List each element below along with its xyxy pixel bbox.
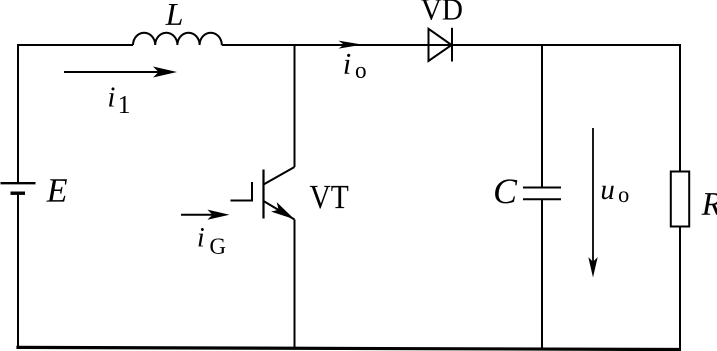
label E (46, 179, 67, 201)
wire capacitor lower (541, 199, 543, 349)
label i1-i (109, 87, 115, 106)
label VD (421, 0, 441, 20)
label iG-G (210, 239, 225, 254)
transistor VT body bar (262, 170, 264, 219)
wire bottom (16, 347, 681, 349)
arrow uo head (588, 257, 597, 277)
wire top left horizontal (17, 44, 133, 46)
label VT (310, 186, 331, 209)
inductor L (133, 33, 222, 45)
label i1-1 (120, 96, 129, 113)
label uo-o (619, 191, 629, 202)
diode VD triangle (429, 29, 452, 61)
label io-i (345, 54, 351, 74)
arrow iG shaft (181, 214, 224, 216)
transistor VT collector lead (264, 167, 295, 185)
transistor VT gate lead (231, 182, 253, 201)
arrow io head (339, 41, 363, 49)
wire right lower (679, 227, 681, 350)
wire left lower (17, 194, 19, 349)
wire collector vertical (294, 44, 296, 167)
label io-o (356, 67, 366, 78)
capacitor C bottom plate (523, 198, 561, 200)
arrow i1 head (153, 67, 177, 78)
capacitor C top plate (523, 187, 561, 189)
label L (165, 4, 182, 25)
label R (702, 193, 717, 215)
resistor R body (671, 172, 689, 227)
arrow iG head (207, 210, 229, 220)
transistor VT emitter arrowhead (271, 202, 297, 224)
wire right upper (679, 44, 681, 172)
wire left upper (17, 44, 19, 182)
battery E long plate (1, 182, 36, 184)
diode VD cathode bar (451, 28, 453, 62)
wire top right horizontal (222, 44, 681, 46)
arrow i1 shaft (64, 71, 172, 73)
arrow uo shaft (592, 128, 594, 272)
label uo-u (602, 186, 614, 200)
wire capacitor upper (541, 44, 543, 188)
label iG-i (198, 228, 203, 246)
label C (495, 179, 517, 203)
wire emitter vertical (294, 220, 296, 350)
battery E short plate (11, 191, 26, 194)
transistor VT emitter lead (264, 201, 295, 220)
